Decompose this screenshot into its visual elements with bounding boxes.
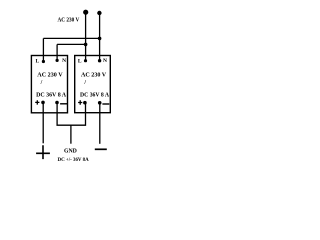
svg-text:AC 230 V: AC 230 V [81, 73, 107, 79]
svg-text:DC 36V 8 A: DC 36V 8 A [36, 93, 67, 99]
svg-text:N: N [103, 58, 107, 64]
svg-text:L: L [78, 58, 82, 64]
svg-text:AC 230 V: AC 230 V [58, 17, 81, 23]
svg-text:L: L [36, 58, 40, 64]
svg-text:DC 36V 8 A: DC 36V 8 A [80, 93, 110, 99]
svg-text:GND: GND [64, 148, 77, 155]
svg-text:N: N [62, 58, 66, 64]
svg-text:/: / [83, 80, 86, 86]
svg-text:/: / [40, 80, 43, 86]
svg-text:AC 230 V: AC 230 V [37, 73, 63, 79]
svg-text:DC +/- 36V 8A: DC +/- 36V 8A [58, 157, 90, 163]
